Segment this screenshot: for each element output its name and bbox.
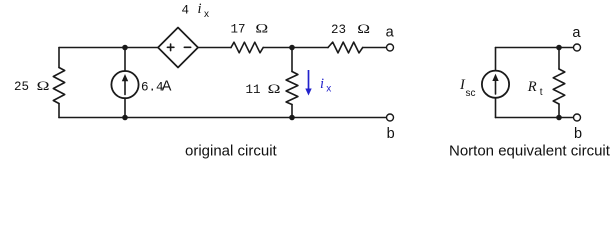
wire Rt lower lead bbox=[558, 104, 560, 118]
terminal a circle norton bbox=[574, 44, 581, 51]
wire norton left rail leads bbox=[495, 48, 497, 71]
current source Isc circle bbox=[482, 71, 509, 98]
node dot norton bottom bbox=[556, 115, 562, 121]
svg-text:A: A bbox=[162, 79, 172, 95]
wire top rail 17ohm-to-23ohm bbox=[263, 47, 328, 49]
wire left rail lower lead bbox=[58, 104, 60, 118]
node dot norton top bbox=[556, 45, 562, 51]
node dot top of current source bbox=[122, 45, 128, 51]
wire current source branch leads bbox=[124, 48, 126, 72]
resistor R 23ohm zigzag bbox=[328, 42, 363, 53]
wire norton top rail bbox=[496, 47, 574, 49]
current source arrow bbox=[124, 80, 126, 95]
blue current arrow ix bbox=[305, 70, 311, 96]
svg-text:i: i bbox=[320, 76, 324, 92]
current source 6.4A circle bbox=[111, 71, 138, 98]
junction node dots norton bbox=[556, 45, 562, 121]
svg-text:sc: sc bbox=[466, 88, 476, 99]
svg-text:Ω: Ω bbox=[255, 23, 268, 36]
current source Isc arrow bbox=[495, 80, 497, 95]
svg-text:11: 11 bbox=[246, 83, 261, 97]
svg-text:b: b bbox=[387, 126, 395, 142]
junction node dots original circuit bbox=[122, 45, 295, 121]
wire 11ohm lower lead bbox=[291, 105, 293, 118]
svg-text:x: x bbox=[326, 84, 331, 95]
svg-text:23: 23 bbox=[331, 23, 346, 37]
svg-text:a: a bbox=[572, 25, 581, 41]
resistor R 17ohm zigzag bbox=[231, 42, 263, 53]
resistor R 25ohm zigzag bbox=[53, 68, 64, 104]
node after 17ohm upper lead bbox=[291, 48, 293, 72]
wire top rail left segment bbox=[59, 47, 158, 49]
minus sign inside diamond bbox=[184, 46, 190, 48]
node dot bottom of current source bbox=[122, 115, 128, 121]
svg-text:Ω: Ω bbox=[357, 23, 370, 36]
svg-text:6.4: 6.4 bbox=[141, 81, 164, 95]
svg-text:Ω: Ω bbox=[268, 83, 281, 96]
svg-text:Ω: Ω bbox=[37, 80, 50, 93]
dependent source U1 diamond bbox=[158, 28, 198, 68]
Norton equivalent circuit bbox=[482, 44, 581, 121]
svg-text:17: 17 bbox=[231, 23, 246, 37]
svg-text:Norton equivalent circuit: Norton equivalent circuit bbox=[449, 143, 611, 160]
wire bottom rail bbox=[59, 117, 386, 119]
resistor Rt zigzag bbox=[553, 69, 565, 104]
terminal b circle bbox=[387, 114, 394, 121]
wire top rail 23ohm-to-terminal-a bbox=[363, 47, 386, 49]
svg-text:b: b bbox=[574, 126, 582, 142]
wire norton bottom rail bbox=[496, 117, 574, 119]
svg-text:t: t bbox=[540, 87, 543, 98]
wire Rt upper lead bbox=[558, 48, 560, 70]
svg-text:i: i bbox=[198, 1, 202, 17]
wire left rail upper lead bbox=[58, 48, 60, 68]
wire top rail diamond-to-17ohm bbox=[198, 47, 231, 49]
svg-text:original circuit: original circuit bbox=[185, 143, 278, 160]
node dot bottom of 11ohm bbox=[289, 115, 295, 121]
svg-text:25: 25 bbox=[14, 80, 29, 94]
plus sign inside diamond bbox=[167, 46, 174, 48]
terminal b circle norton bbox=[574, 114, 581, 121]
terminal a circle bbox=[387, 44, 394, 51]
svg-text:a: a bbox=[386, 24, 395, 40]
resistor R 11ohm zigzag bbox=[286, 72, 298, 105]
svg-text:R: R bbox=[527, 79, 537, 95]
svg-text:x: x bbox=[204, 9, 209, 20]
svg-text:4: 4 bbox=[182, 4, 190, 18]
node dot top of 11ohm bbox=[289, 45, 295, 51]
